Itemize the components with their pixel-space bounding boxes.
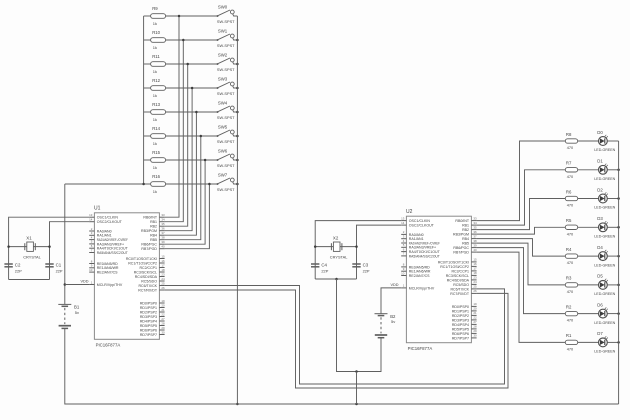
LED D6 [594, 302, 618, 324]
IC U2 microcontroller PIC16F877A [406, 209, 471, 351]
resistor R14 [144, 126, 218, 146]
svg-text:R9: R9 [152, 6, 158, 11]
junction SW5 / ground rail [236, 135, 239, 138]
wire C4/C3 ground rail [315, 278, 356, 280]
svg-text:CRYSTAL: CRYSTAL [330, 255, 348, 260]
svg-text:RB4: RB4 [150, 234, 157, 238]
wire U2 OSC1 to crystal left [315, 221, 401, 279]
pin 3 U2 RA1/AN1 [401, 235, 423, 242]
svg-text:RD1/PSP1: RD1/PSP1 [452, 309, 469, 313]
svg-text:SW0: SW0 [218, 5, 228, 10]
junction X2 right [355, 245, 358, 248]
wire bus column row 0 to U1 RB0 [165, 16, 179, 217]
svg-text:22P: 22P [363, 268, 370, 273]
resistor R12 [144, 78, 218, 98]
pin 6 U1 RA4/T0CKI/C1OUT [89, 244, 128, 251]
svg-text:SW-SPST: SW-SPST [217, 139, 235, 144]
junction SW4 / ground rail [236, 111, 239, 114]
wire bus column row 4 to U1 RB4 [165, 112, 197, 235]
pin 23 U2 RC4/SDI/SDA [447, 276, 477, 283]
svg-text:SW-SPST: SW-SPST [217, 67, 235, 72]
svg-text:13: 13 [89, 213, 93, 217]
svg-text:470: 470 [567, 318, 574, 323]
pin 19 U2 RD0/PSP0 [452, 302, 477, 309]
svg-text:U1: U1 [94, 206, 101, 212]
svg-text:R2: R2 [566, 304, 572, 309]
wire U1 RC6 to U2 RC6 (inner serial link) [165, 286, 505, 385]
svg-text:SW-SPST: SW-SPST [217, 115, 235, 120]
svg-text:RC1/T1OSI/CCP2: RC1/T1OSI/CCP2 [128, 261, 157, 265]
switch SW3 [217, 77, 238, 96]
pin 3 U1 RA1/AN1 [89, 231, 111, 238]
svg-text:RC6/TX/CK: RC6/TX/CK [450, 287, 469, 291]
pin 17 U1 RC2/CCP1 [139, 263, 165, 270]
svg-text:RD7/PSP7: RD7/PSP7 [140, 333, 157, 337]
svg-text:B1: B1 [74, 305, 80, 310]
svg-text:22P: 22P [56, 268, 63, 273]
resistor R7 [565, 161, 598, 179]
svg-text:SW5: SW5 [218, 125, 228, 130]
junction X1 left [7, 245, 10, 248]
svg-text:RD2/PSP2: RD2/PSP2 [452, 314, 469, 318]
junction row 2 / bus column [186, 63, 189, 66]
junction LED D1 / cathode rail [617, 169, 620, 172]
resistor R11 [144, 54, 218, 74]
svg-text:OSC2/CLKOUT: OSC2/CLKOUT [409, 224, 435, 228]
pin 8 U2 RE0/AN5/RD [401, 263, 430, 270]
wire crystal X1 row [9, 246, 50, 248]
pin 30 U2 RD7/PSP7 [452, 334, 477, 341]
svg-text:RD5/PSP5: RD5/PSP5 [140, 324, 157, 328]
svg-text:24: 24 [473, 280, 477, 284]
wire LED cathode rail [618, 141, 620, 404]
svg-text:RC7/RX/DT: RC7/RX/DT [450, 292, 470, 296]
pin 14 U1 OSC2/CLKOUT [89, 218, 122, 225]
crystal X2 [330, 235, 348, 259]
pin 9 U2 RE1/AN6/WR [401, 267, 431, 274]
svg-text:22: 22 [473, 316, 477, 320]
svg-text:RB7/PGD: RB7/PGD [141, 247, 157, 251]
svg-text:OSC1/CLKIN: OSC1/CLKIN [409, 219, 431, 223]
pin 16 U2 RC1/T1OSI/CCP2 [440, 262, 477, 269]
svg-text:RC0/T1OSO/T1CKI: RC0/T1OSO/T1CKI [126, 257, 157, 261]
junction VDD / MCLR wire [64, 283, 67, 286]
resistor R1 [565, 333, 598, 351]
svg-text:VDD: VDD [391, 283, 399, 287]
svg-text:SW6: SW6 [218, 149, 228, 154]
pin 14 U2 OSC2/CLKOUT [401, 221, 434, 228]
pin 15 U1 RC0/T1OSO/T1CKI [126, 254, 165, 261]
svg-text:RB4: RB4 [462, 237, 469, 241]
svg-text:29: 29 [161, 326, 165, 330]
pin 18 U1 RC3/SCK/SCL [134, 268, 165, 275]
pin 19 U1 RD0/PSP0 [140, 299, 165, 306]
svg-text:RB0/INT: RB0/INT [143, 216, 157, 220]
svg-text:5v: 5v [75, 310, 79, 315]
svg-text:23: 23 [161, 272, 165, 276]
svg-text:470: 470 [567, 174, 574, 179]
battery B1 5v [58, 304, 80, 328]
svg-text:27: 27 [161, 317, 165, 321]
wire VDD vertical (B1+) [64, 184, 66, 304]
junction SW7 / ground rail [236, 183, 239, 186]
svg-text:RE2/AN7/CS: RE2/AN7/CS [409, 274, 430, 278]
svg-text:37: 37 [473, 234, 477, 238]
LED D7 [594, 331, 618, 353]
pin 34 U1 RB1 [150, 218, 165, 225]
svg-text:RB0/INT: RB0/INT [455, 219, 469, 223]
resistor R5 [565, 218, 598, 236]
pin 6 U2 RA4/T0CKI/C1OUT [401, 247, 440, 254]
LED D4 [594, 245, 618, 267]
junction LED D3 / cathode rail [617, 226, 620, 229]
svg-text:RE2/AN7/CS: RE2/AN7/CS [97, 271, 118, 275]
svg-text:1k: 1k [153, 141, 157, 146]
pin 13 U2 OSC1/CLKIN [401, 216, 430, 223]
wire crystal X2 row [315, 246, 356, 248]
pin 29 U2 RD6/PSP6 [452, 329, 477, 336]
svg-text:RB1: RB1 [150, 220, 157, 224]
svg-text:37: 37 [161, 231, 165, 235]
svg-text:RC3/SCK/SCL: RC3/SCK/SCL [446, 274, 469, 278]
svg-text:RD3/PSP3: RD3/PSP3 [452, 318, 469, 322]
pin 29 U1 RD6/PSP6 [140, 326, 165, 333]
svg-text:1k: 1k [153, 45, 157, 50]
svg-text:RC3/SCK/SCL: RC3/SCK/SCL [134, 270, 157, 274]
pin 38 U2 RB5 [462, 239, 477, 246]
junction LED D6 / cathode rail [617, 312, 620, 315]
svg-text:38: 38 [161, 236, 165, 240]
svg-text:13: 13 [401, 216, 405, 220]
svg-text:36: 36 [161, 227, 165, 231]
svg-text:R8: R8 [566, 132, 572, 137]
svg-text:LED-GREEN: LED-GREEN [594, 292, 615, 296]
svg-text:RA5/AN4/SS/C2OUT: RA5/AN4/SS/C2OUT [97, 251, 129, 255]
pin 15 U2 RC0/T1OSO/T1CKI [438, 258, 477, 265]
svg-text:SW-SPST: SW-SPST [217, 19, 235, 24]
svg-text:D7: D7 [597, 331, 603, 336]
pin 8 U1 RE0/AN5/RD [89, 259, 118, 266]
junction LED D5 / cathode rail [617, 284, 620, 287]
pin 30 U1 RD7/PSP7 [140, 330, 165, 337]
switch SW0 [217, 5, 238, 24]
svg-text:22P: 22P [321, 268, 328, 273]
pin 39 U2 RB6/PGC [453, 243, 477, 250]
wire U2 ground drop [337, 279, 382, 372]
wire bus column row 5 to U1 RB5 [165, 136, 201, 240]
ladder left supply rail [143, 16, 145, 184]
svg-text:X2: X2 [333, 235, 339, 240]
svg-text:RC1/T1OSI/CCP2: RC1/T1OSI/CCP2 [440, 265, 469, 269]
pin 20 U2 RD1/PSP1 [452, 307, 477, 314]
svg-text:X1: X1 [26, 235, 32, 240]
wire bus column row 3 to U1 RB3 [165, 88, 193, 231]
svg-text:R14: R14 [152, 126, 160, 131]
switch SW7 [217, 173, 238, 192]
junction LED D2 / cathode rail [617, 197, 620, 200]
junction X2 left [314, 245, 317, 248]
svg-text:470: 470 [567, 260, 574, 265]
pin 1 U1 MCLR/Vpp/THV [89, 280, 123, 287]
svg-text:D4: D4 [597, 245, 603, 250]
svg-text:21: 21 [473, 311, 477, 315]
resistor R10 [144, 30, 218, 50]
junction SW3 / ground rail [236, 87, 239, 90]
svg-text:R16: R16 [152, 174, 160, 179]
svg-text:40: 40 [473, 248, 477, 252]
pin 25 U1 RC6/TX/CK [138, 281, 165, 288]
svg-text:39: 39 [161, 240, 165, 244]
svg-text:SW-SPST: SW-SPST [217, 43, 235, 48]
pin 28 U2 RD5/PSP5 [452, 325, 477, 332]
junction row 4 / bus column [195, 111, 198, 114]
pin 36 U2 RB3/PGM [453, 230, 477, 237]
svg-text:33: 33 [161, 213, 165, 217]
resistor R9 [144, 6, 218, 26]
svg-text:RC2/CCP1: RC2/CCP1 [451, 269, 469, 273]
svg-text:RB5: RB5 [462, 242, 469, 246]
junction X1 right [48, 245, 51, 248]
wire bus column row 6 to U1 RB6 [165, 160, 206, 244]
svg-text:RD0/PSP0: RD0/PSP0 [140, 301, 157, 305]
svg-text:R12: R12 [152, 78, 160, 83]
pin 7 U2 RA5/AN4/SS/C2OUT [401, 252, 440, 259]
svg-text:D1: D1 [597, 159, 603, 164]
svg-text:RC4/SDI/SDA: RC4/SDI/SDA [135, 275, 158, 279]
svg-text:19: 19 [161, 299, 165, 303]
wire U2 RB7 to LED row 7 [477, 252, 566, 342]
svg-text:1k: 1k [153, 21, 157, 26]
svg-text:RC2/CCP1: RC2/CCP1 [139, 266, 157, 270]
svg-text:SW1: SW1 [218, 29, 228, 34]
LED D0 [594, 130, 618, 152]
pin 33 U1 RB0/INT [143, 213, 165, 220]
pin 27 U1 RD4/PSP4 [140, 317, 165, 324]
LED D3 [594, 216, 618, 238]
svg-text:LED-GREEN: LED-GREEN [594, 350, 615, 354]
svg-text:470: 470 [567, 231, 574, 236]
svg-text:RD1/PSP1: RD1/PSP1 [140, 306, 157, 310]
svg-text:R10: R10 [152, 30, 160, 35]
switch SW1 [217, 29, 238, 48]
svg-text:RD7/PSP7: RD7/PSP7 [452, 336, 469, 340]
wire VDD to U1 MCLR [65, 284, 89, 286]
junction row 3 / bus column [191, 87, 194, 90]
pin 35 U1 RB2 [150, 222, 165, 229]
junction row 7 / bus column [208, 183, 211, 186]
svg-text:15: 15 [161, 254, 165, 258]
junction row 6 / bus column [204, 159, 207, 162]
pin 36 U1 RB3/PGM [141, 227, 165, 234]
pin 13 U1 OSC1/CLKIN [89, 213, 118, 220]
pin 40 U2 RB7/PGD [453, 248, 477, 255]
wire U1 OSC1 to crystal left [9, 217, 90, 279]
svg-text:SW-SPST: SW-SPST [217, 187, 235, 192]
svg-text:R1: R1 [566, 333, 572, 338]
resistor R4 [565, 247, 598, 265]
svg-text:RA5/AN4/SS/C2OUT: RA5/AN4/SS/C2OUT [409, 254, 441, 258]
svg-text:LED-GREEN: LED-GREEN [594, 148, 615, 152]
svg-text:LED-GREEN: LED-GREEN [594, 235, 615, 239]
svg-text:RC5/SDO: RC5/SDO [453, 283, 469, 287]
svg-text:LED-GREEN: LED-GREEN [594, 263, 615, 267]
pin 10 U1 RE2/AN7/CS [89, 268, 118, 275]
pin 22 U2 RD3/PSP3 [452, 316, 477, 323]
svg-text:22: 22 [161, 312, 165, 316]
LED D1 [594, 159, 618, 181]
pin 10 U2 RE2/AN7/CS [401, 271, 430, 278]
pin 37 U2 RB4 [462, 234, 477, 241]
pin 40 U1 RB7/PGD [141, 245, 165, 252]
IC U1 microcontroller PIC16F877A [94, 206, 159, 348]
pin 20 U1 RD1/PSP1 [140, 303, 165, 310]
svg-text:LED-GREEN: LED-GREEN [594, 321, 615, 325]
capacitor C4 22P [311, 263, 329, 274]
svg-text:RB6/PGC: RB6/PGC [141, 243, 157, 247]
svg-text:SW-SPST: SW-SPST [217, 91, 235, 96]
svg-text:RD2/PSP2: RD2/PSP2 [140, 310, 157, 314]
wire bus column row 2 to U1 RB2 [165, 64, 188, 226]
svg-text:18: 18 [473, 271, 477, 275]
svg-text:MCLR/Vpp/THV: MCLR/Vpp/THV [409, 286, 435, 290]
wire U1 OSC2 to crystal right [50, 222, 90, 280]
wire U2 RB0 to LED row 0 [477, 141, 566, 221]
pin 27 U2 RD4/PSP4 [452, 320, 477, 327]
svg-text:SW-SPST: SW-SPST [217, 163, 235, 168]
svg-text:RC5/SDO: RC5/SDO [141, 279, 157, 283]
svg-text:D2: D2 [597, 187, 603, 192]
svg-text:D5: D5 [597, 274, 603, 279]
svg-text:OSC2/CLKOUT: OSC2/CLKOUT [97, 220, 123, 224]
pin 5 U2 RA3/AN3/VREF+ [401, 243, 436, 250]
svg-text:RC4/SDI/SDA: RC4/SDI/SDA [447, 278, 470, 282]
svg-text:16: 16 [161, 259, 165, 263]
pin 21 U2 RD2/PSP2 [452, 311, 477, 318]
resistor R3 [565, 276, 598, 294]
svg-text:30: 30 [161, 330, 165, 334]
svg-text:34: 34 [473, 221, 477, 225]
svg-text:RB5: RB5 [150, 238, 157, 242]
svg-text:24: 24 [161, 277, 165, 281]
svg-text:1k: 1k [153, 165, 157, 170]
wire U2 RB2 to LED row 2 [477, 199, 566, 230]
svg-text:RB3/PGM: RB3/PGM [141, 229, 157, 233]
junction U2 ground / bottom rail [355, 403, 358, 406]
svg-text:MCLR/Vpp/THV: MCLR/Vpp/THV [97, 283, 123, 287]
svg-text:C2: C2 [15, 263, 21, 268]
svg-text:20: 20 [473, 307, 477, 311]
junction ground rail / bottom rail [236, 403, 239, 406]
svg-text:5v: 5v [391, 319, 395, 324]
wire U2 RB6 to LED row 6 [477, 248, 566, 314]
capacitor C1 22P [45, 263, 63, 274]
svg-text:15: 15 [473, 258, 477, 262]
svg-text:40: 40 [161, 245, 165, 249]
pin 26 U2 RC7/RX/DT [450, 289, 477, 296]
svg-text:C4: C4 [321, 263, 327, 268]
svg-text:R4: R4 [566, 247, 572, 252]
wire U2 OSC2 to crystal right [357, 225, 402, 279]
pin 34 U2 RB1 [462, 221, 477, 228]
svg-text:D3: D3 [597, 216, 603, 221]
svg-text:RB3/PGM: RB3/PGM [453, 233, 469, 237]
svg-text:25: 25 [473, 285, 477, 289]
svg-text:RD4/PSP4: RD4/PSP4 [140, 319, 157, 323]
svg-text:1k: 1k [153, 69, 157, 74]
pin 17 U2 RC2/CCP1 [451, 267, 477, 274]
wire U1 RC7 to U2 RC7 (outer serial link) [165, 290, 508, 388]
svg-text:23: 23 [473, 276, 477, 280]
pin 22 U1 RD3/PSP3 [140, 312, 165, 319]
svg-text:29: 29 [473, 329, 477, 333]
junction ground drop / bottom link [355, 370, 358, 373]
svg-text:28: 28 [161, 321, 165, 325]
svg-text:RC0/T1OSO/T1CKI: RC0/T1OSO/T1CKI [438, 260, 469, 264]
svg-text:RB6/PGC: RB6/PGC [453, 246, 469, 250]
junction R16 row / ladder rail [142, 183, 145, 186]
resistor R6 [565, 189, 598, 207]
svg-text:RB2: RB2 [150, 225, 157, 229]
svg-text:1k: 1k [153, 117, 157, 122]
resistor R8 [565, 132, 598, 150]
svg-text:17: 17 [161, 263, 165, 267]
svg-text:R11: R11 [152, 54, 160, 59]
wire bottom ground rail [237, 403, 618, 405]
resistor R16 [144, 174, 218, 194]
wire B2+ to U2 MCLR [381, 288, 401, 314]
wire bus column row 1 to U1 RB1 [165, 40, 184, 222]
svg-text:B2: B2 [390, 314, 396, 319]
svg-text:34: 34 [161, 218, 165, 222]
svg-text:LED-GREEN: LED-GREEN [594, 177, 615, 181]
pin 35 U2 RB2 [462, 225, 477, 232]
junction C4/C3 rail / ground drop [335, 278, 338, 281]
svg-text:1k: 1k [153, 93, 157, 98]
svg-text:10: 10 [401, 271, 405, 275]
svg-text:470: 470 [567, 346, 574, 351]
switch SW6 [217, 149, 238, 168]
svg-text:SW4: SW4 [218, 101, 228, 106]
svg-text:470: 470 [567, 145, 574, 150]
switch SW5 [217, 125, 238, 144]
junction row 0 / bus column [178, 15, 181, 18]
svg-text:PIC16F877A: PIC16F877A [408, 346, 433, 351]
pin 25 U2 RC6/TX/CK [450, 285, 477, 292]
svg-text:OSC1/CLKIN: OSC1/CLKIN [97, 216, 119, 220]
pin 21 U1 RD2/PSP2 [140, 308, 165, 315]
svg-text:470: 470 [567, 289, 574, 294]
svg-text:RD6/PSP6: RD6/PSP6 [140, 328, 157, 332]
capacitor C2 22P [4, 263, 22, 274]
wire C2/C1 ground rail [9, 279, 50, 281]
junction row 5 / bus column [200, 135, 203, 138]
svg-text:VDD: VDD [81, 280, 89, 284]
svg-text:27: 27 [473, 320, 477, 324]
pin 5 U1 RA3/AN3/VREF+ [89, 240, 124, 247]
pin 18 U2 RC3/SCK/SCL [446, 271, 477, 278]
switch common ground rail [236, 16, 238, 404]
svg-text:R13: R13 [152, 102, 160, 107]
svg-text:22P: 22P [15, 268, 22, 273]
svg-text:C3: C3 [363, 263, 369, 268]
pin 33 U2 RB0/INT [455, 216, 477, 223]
svg-text:R3: R3 [566, 276, 572, 281]
svg-text:18: 18 [161, 268, 165, 272]
junction row 1 / bus column [182, 39, 185, 42]
pin 23 U1 RC4/SDI/SDA [135, 272, 165, 279]
svg-text:38: 38 [473, 239, 477, 243]
svg-text:25: 25 [161, 281, 165, 285]
